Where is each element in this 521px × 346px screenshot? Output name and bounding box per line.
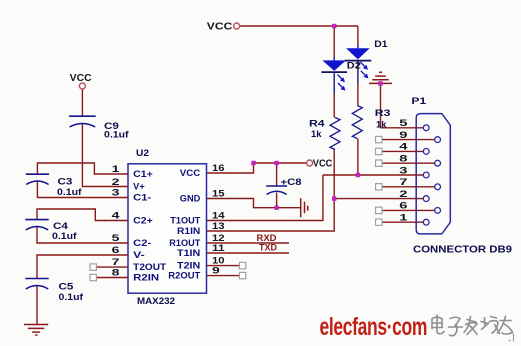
svg-text:9: 9 [212, 266, 220, 277]
svg-text:D1: D1 [374, 39, 387, 49]
svg-text:3: 3 [112, 188, 120, 199]
svg-text:5: 5 [399, 118, 408, 129]
svg-text:8: 8 [112, 268, 121, 279]
svg-text:C5: C5 [59, 282, 74, 292]
svg-text:+C8: +C8 [281, 177, 302, 187]
svg-text:P1: P1 [411, 96, 426, 106]
svg-text:14: 14 [212, 211, 225, 222]
svg-text:VCC: VCC [313, 159, 333, 170]
svg-text:0.1uf: 0.1uf [104, 130, 130, 140]
svg-text:D2: D2 [347, 61, 361, 71]
svg-text:13: 13 [212, 221, 225, 232]
svg-text:T1OUT: T1OUT [170, 215, 200, 225]
svg-text:2: 2 [399, 189, 407, 200]
svg-text:U2: U2 [136, 147, 149, 158]
svg-text:elecfans·com: elecfans·com [320, 312, 428, 341]
svg-text:16: 16 [212, 163, 225, 174]
svg-text:R1OUT: R1OUT [169, 238, 200, 248]
svg-text:RXD: RXD [257, 233, 278, 243]
svg-text:7: 7 [112, 257, 120, 268]
svg-text:VCC: VCC [70, 73, 92, 84]
svg-text:C2+: C2+ [133, 215, 153, 225]
svg-text:1: 1 [399, 213, 408, 224]
svg-text:C3: C3 [58, 177, 73, 187]
svg-text:2: 2 [112, 177, 120, 188]
svg-text:T1IN: T1IN [177, 248, 200, 258]
svg-text:TXD: TXD [259, 243, 278, 253]
svg-text:1k: 1k [311, 129, 322, 139]
svg-text:T2IN: T2IN [177, 260, 200, 270]
svg-text:VCC: VCC [180, 168, 201, 178]
svg-text:7: 7 [399, 177, 407, 188]
svg-text:0.1uf: 0.1uf [59, 292, 85, 302]
svg-text:15: 15 [212, 189, 225, 200]
svg-text:9: 9 [399, 130, 407, 141]
svg-text:0.1uf: 0.1uf [52, 231, 78, 241]
svg-text:V+: V+ [133, 181, 145, 191]
svg-text:1: 1 [112, 164, 121, 175]
svg-text:3: 3 [399, 165, 407, 176]
svg-text:MAX232: MAX232 [137, 295, 175, 306]
svg-text:11: 11 [212, 243, 225, 254]
svg-text:T2OUT: T2OUT [133, 262, 167, 272]
svg-text:VCC: VCC [207, 22, 233, 33]
svg-text:C2-: C2- [133, 238, 151, 248]
svg-text:CONNECTOR DB9: CONNECTOR DB9 [413, 244, 512, 255]
svg-text:C4: C4 [53, 221, 68, 231]
svg-text:R2IN: R2IN [133, 272, 159, 282]
svg-text:C1-: C1- [133, 192, 151, 202]
svg-text:1k: 1k [376, 120, 387, 130]
svg-text:GND: GND [180, 193, 201, 203]
svg-text:V-: V- [133, 250, 145, 260]
svg-text:C1+: C1+ [133, 169, 153, 179]
svg-text:0.1uf: 0.1uf [57, 187, 83, 197]
svg-text:R1IN: R1IN [177, 226, 200, 236]
svg-text:5: 5 [112, 233, 121, 244]
svg-text:6: 6 [112, 245, 120, 256]
svg-text:6: 6 [399, 201, 407, 212]
svg-text:4: 4 [399, 142, 408, 153]
svg-text:4: 4 [112, 211, 121, 222]
svg-text:R2OUT: R2OUT [168, 270, 201, 280]
svg-text:8: 8 [399, 154, 408, 165]
svg-text:R4: R4 [309, 119, 325, 129]
svg-text:R3: R3 [375, 108, 391, 118]
